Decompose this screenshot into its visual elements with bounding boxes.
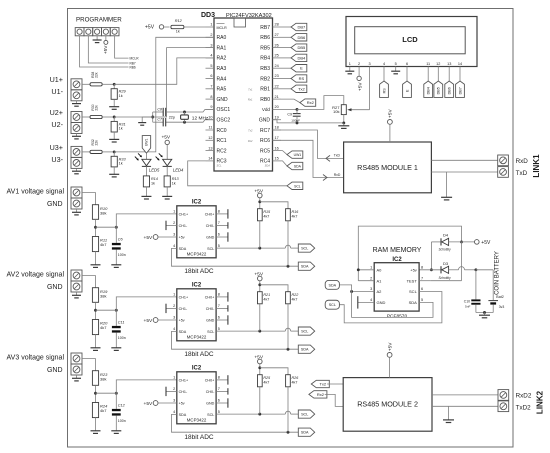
svg-text:10k: 10k — [333, 109, 339, 114]
svg-text:7: 7 — [218, 304, 220, 308]
svg-text:SCL: SCL — [207, 330, 214, 334]
svg-text:4k7: 4k7 — [292, 297, 298, 301]
svg-text:RC5: RC5 — [260, 148, 270, 154]
svg-text:+5v: +5v — [179, 236, 185, 240]
svg-text:5: 5 — [218, 410, 220, 414]
svg-text:DD3: DD3 — [201, 12, 215, 19]
svg-text:RA1: RA1 — [217, 45, 227, 51]
svg-text:6: 6 — [218, 233, 220, 237]
svg-text:13: 13 — [447, 62, 451, 66]
svg-text:16: 16 — [275, 146, 279, 150]
svg-text:Schottky: Schottky — [439, 248, 452, 252]
svg-text:IC2: IC2 — [392, 257, 402, 263]
svg-text:C10: C10 — [464, 299, 470, 303]
svg-text:RB7: RB7 — [130, 61, 136, 65]
svg-text:SCL: SCL — [207, 413, 214, 417]
svg-text:GND: GND — [47, 367, 63, 374]
svg-text:3: 3 — [370, 287, 372, 291]
svg-text:OSC1: OSC1 — [217, 107, 231, 113]
svg-text:Tx1: Tx1 — [248, 87, 253, 91]
svg-text:R12: R12 — [175, 19, 183, 23]
svg-text:LED4: LED4 — [173, 167, 184, 172]
svg-text:17: 17 — [275, 136, 279, 140]
svg-text:LCD: LCD — [402, 35, 418, 44]
svg-text:18bit ADC: 18bit ADC — [184, 351, 214, 358]
svg-text:3: 3 — [210, 43, 212, 47]
svg-text:100n: 100n — [118, 336, 126, 340]
svg-text:2: 2 — [370, 276, 372, 280]
svg-text:RA0: RA0 — [217, 35, 227, 41]
svg-text:COIN BATTERY: COIN BATTERY — [495, 251, 501, 295]
svg-text:+5V: +5V — [144, 401, 153, 407]
svg-text:1: 1 — [173, 210, 175, 214]
svg-text:R21: R21 — [263, 293, 270, 297]
svg-text:3: 3 — [368, 62, 370, 66]
svg-text:22k: 22k — [95, 105, 99, 111]
svg-text:SDA: SDA — [301, 348, 309, 352]
svg-text:SDA: SDA — [179, 247, 187, 251]
svg-text:Rx2: Rx2 — [317, 392, 325, 397]
svg-text:CH1-: CH1- — [179, 224, 188, 228]
svg-text:5: 5 — [395, 62, 397, 66]
svg-text:U1+: U1+ — [50, 75, 63, 84]
svg-text:27: 27 — [275, 33, 279, 37]
svg-text:SCL: SCL — [217, 164, 223, 168]
svg-text:C12: C12 — [118, 404, 126, 408]
svg-text:1: 1 — [173, 376, 175, 380]
svg-text:SCL: SCL — [207, 247, 214, 251]
svg-text:Rx2: Rx2 — [307, 100, 315, 105]
svg-text:Rx1: Rx1 — [248, 98, 253, 102]
svg-text:5: 5 — [218, 244, 220, 248]
svg-text:LINK2: LINK2 — [536, 390, 545, 414]
svg-text:CH0-: CH0- — [206, 307, 215, 311]
svg-text:CH1-: CH1- — [179, 390, 188, 394]
svg-text:AV1 voltage signal: AV1 voltage signal — [7, 189, 65, 196]
svg-text:Bat2: Bat2 — [496, 295, 503, 299]
svg-text:OSC2: OSC2 — [217, 118, 231, 124]
svg-text:GND: GND — [47, 201, 63, 208]
svg-text:DB7: DB7 — [458, 87, 462, 94]
svg-text:26: 26 — [275, 43, 279, 47]
svg-text:DB5: DB5 — [437, 87, 441, 94]
svg-text:RC6: RC6 — [260, 138, 270, 144]
svg-text:SCL: SCL — [329, 303, 336, 307]
svg-text:SDA: SDA — [409, 300, 418, 305]
svg-text:4: 4 — [370, 298, 372, 302]
svg-text:5: 5 — [218, 327, 220, 331]
svg-text:SDA: SDA — [179, 413, 187, 417]
svg-text:+5V: +5V — [481, 240, 491, 246]
svg-text:4: 4 — [173, 244, 175, 248]
svg-text:SDA: SDA — [301, 431, 309, 435]
svg-text:4k7: 4k7 — [263, 214, 269, 218]
svg-text:RS485 MODULE 1: RS485 MODULE 1 — [357, 163, 418, 172]
svg-text:+5V: +5V — [145, 25, 155, 31]
svg-text:R13: R13 — [172, 177, 180, 181]
svg-text:R25: R25 — [263, 376, 271, 380]
svg-text:4k7: 4k7 — [100, 408, 107, 413]
svg-text:C11: C11 — [118, 321, 125, 325]
svg-text:25: 25 — [275, 54, 279, 58]
svg-text:R14: R14 — [151, 177, 158, 181]
svg-text:Tx2: Tx2 — [248, 129, 253, 133]
svg-text:RB7: RB7 — [260, 25, 270, 31]
svg-text:22k: 22k — [95, 140, 99, 146]
svg-text:RA2: RA2 — [217, 56, 227, 62]
svg-text:MCP3422: MCP3422 — [187, 334, 207, 339]
svg-text:GND: GND — [217, 97, 229, 103]
svg-text:MCLR: MCLR — [217, 26, 228, 30]
svg-text:7: 7 — [421, 276, 423, 280]
svg-text:RC0: RC0 — [217, 128, 227, 134]
svg-text:SDA: SDA — [329, 283, 337, 287]
svg-text:GND: GND — [377, 300, 386, 305]
svg-text:SCL: SCL — [301, 330, 308, 334]
svg-text:GND: GND — [206, 236, 215, 240]
svg-text:RB6: RB6 — [260, 35, 270, 41]
svg-text:U3-: U3- — [51, 155, 63, 164]
svg-text:14: 14 — [458, 62, 462, 66]
svg-text:D3: D3 — [443, 261, 449, 266]
svg-text:6: 6 — [218, 316, 220, 320]
svg-text:1: 1 — [173, 293, 175, 297]
svg-text:GND: GND — [206, 402, 215, 406]
svg-text:PCF8570: PCF8570 — [387, 314, 408, 320]
svg-text:4: 4 — [383, 62, 385, 66]
svg-text:AV3 voltage signal: AV3 voltage signal — [7, 355, 65, 362]
svg-text:RB2: RB2 — [260, 76, 270, 82]
svg-text:Schottky: Schottky — [439, 276, 452, 280]
svg-text:GND: GND — [47, 284, 63, 291]
svg-text:2: 2 — [210, 33, 212, 37]
svg-text:PIC24FV32KA302: PIC24FV32KA302 — [226, 13, 272, 19]
svg-text:RxD: RxD — [334, 173, 341, 177]
svg-text:12: 12 — [436, 62, 440, 66]
svg-text:6: 6 — [406, 62, 408, 66]
svg-text:RxD: RxD — [516, 158, 529, 165]
svg-text:TxD: TxD — [334, 154, 341, 158]
svg-text:SDA: SDA — [294, 165, 302, 169]
svg-text:+5V: +5V — [388, 109, 394, 118]
svg-text:A0: A0 — [377, 267, 383, 272]
svg-text:RS485 MODULE 2: RS485 MODULE 2 — [357, 400, 418, 409]
svg-text:UW1: UW1 — [294, 153, 302, 157]
svg-text:U2+: U2+ — [50, 108, 63, 117]
svg-text:Rx2: Rx2 — [248, 139, 253, 143]
svg-text:+5V: +5V — [144, 318, 153, 324]
svg-text:CH0+: CH0+ — [205, 213, 215, 217]
svg-text:1k: 1k — [119, 127, 123, 131]
svg-text:AV2 voltage signal: AV2 voltage signal — [7, 272, 65, 279]
svg-text:LINK1: LINK1 — [532, 154, 541, 178]
svg-text:8: 8 — [421, 266, 423, 270]
svg-text:RB1: RB1 — [260, 87, 270, 93]
svg-text:DB6: DB6 — [448, 87, 452, 94]
svg-text:RB3: RB3 — [260, 66, 270, 72]
svg-text:7: 7 — [218, 221, 220, 225]
svg-text:1: 1 — [370, 266, 372, 270]
svg-text:UW1: UW1 — [145, 139, 149, 147]
svg-text:20: 20 — [275, 105, 279, 109]
svg-text:3: 3 — [173, 316, 175, 320]
svg-text:DB4: DB4 — [298, 55, 307, 60]
svg-text:28: 28 — [275, 23, 279, 27]
svg-text:+5V: +5V — [161, 135, 170, 141]
svg-text:RA5: RA5 — [217, 87, 227, 93]
svg-text:2: 2 — [173, 304, 175, 308]
svg-text:22p: 22p — [169, 115, 175, 119]
svg-text:MCP3422: MCP3422 — [187, 417, 207, 422]
svg-text:1k: 1k — [151, 182, 155, 186]
svg-text:CH1-: CH1- — [179, 307, 188, 311]
svg-text:38k: 38k — [100, 210, 106, 215]
svg-text:LED5: LED5 — [149, 167, 160, 172]
svg-text:1: 1 — [210, 23, 212, 27]
svg-text:CH0-: CH0- — [206, 390, 215, 394]
svg-text:2: 2 — [358, 62, 360, 66]
svg-text:13: 13 — [208, 146, 212, 150]
svg-text:A2: A2 — [377, 289, 383, 294]
svg-text:6: 6 — [210, 74, 212, 78]
svg-text:U2-: U2- — [51, 120, 63, 129]
svg-text:CH0-: CH0- — [206, 224, 215, 228]
svg-text:SDA: SDA — [301, 265, 309, 269]
svg-text:1: 1 — [349, 62, 351, 66]
svg-text:RxD2: RxD2 — [516, 393, 532, 400]
svg-text:TEST: TEST — [407, 278, 418, 283]
svg-text:1k: 1k — [172, 182, 176, 186]
svg-text:RC2: RC2 — [217, 148, 227, 154]
svg-text:RAM MEMORY: RAM MEMORY — [373, 247, 422, 254]
svg-text:C8: C8 — [157, 107, 162, 111]
svg-text:+5v: +5v — [179, 402, 185, 406]
svg-text:U1-: U1- — [51, 87, 63, 96]
svg-text:RS: RS — [382, 88, 386, 94]
svg-text:24: 24 — [275, 64, 279, 68]
svg-text:38k: 38k — [100, 293, 106, 298]
svg-text:DB5: DB5 — [298, 45, 307, 50]
svg-text:4k7: 4k7 — [100, 242, 107, 247]
svg-text:E: E — [300, 66, 303, 71]
svg-text:TxD2: TxD2 — [516, 405, 532, 412]
svg-text:DB7: DB7 — [298, 25, 307, 30]
svg-text:4: 4 — [173, 410, 175, 414]
svg-text:TxD: TxD — [516, 170, 528, 177]
svg-text:3: 3 — [173, 233, 175, 237]
svg-text:18bit ADC: 18bit ADC — [184, 268, 214, 275]
svg-text:4: 4 — [173, 327, 175, 331]
svg-text:2: 2 — [173, 221, 175, 225]
svg-text:GND: GND — [259, 118, 271, 124]
svg-text:1k: 1k — [176, 30, 180, 34]
svg-text:+5V: +5V — [387, 342, 393, 351]
svg-text:CH1+: CH1+ — [179, 379, 189, 383]
svg-text:+5V: +5V — [144, 235, 153, 241]
svg-text:12: 12 — [208, 136, 212, 140]
svg-text:19: 19 — [275, 115, 279, 119]
svg-text:2: 2 — [173, 387, 175, 391]
svg-text:1k: 1k — [119, 162, 123, 166]
svg-text:4: 4 — [210, 54, 212, 58]
svg-text:4k7: 4k7 — [100, 325, 107, 330]
svg-text:7: 7 — [218, 387, 220, 391]
svg-text:SDA: SDA — [265, 164, 271, 168]
svg-text:6: 6 — [421, 287, 423, 291]
svg-text:+5V: +5V — [103, 45, 109, 54]
svg-text:R16: R16 — [292, 210, 300, 214]
svg-text:SCL: SCL — [409, 289, 418, 294]
svg-text:6: 6 — [218, 399, 220, 403]
svg-text:Tx2: Tx2 — [298, 86, 305, 91]
svg-text:4k7: 4k7 — [263, 380, 269, 384]
svg-text:RC1: RC1 — [217, 138, 227, 144]
svg-text:RB5: RB5 — [260, 45, 270, 51]
svg-text:8: 8 — [218, 376, 220, 380]
svg-text:GND: GND — [206, 319, 215, 323]
svg-text:R26: R26 — [292, 376, 300, 380]
svg-text:U3+: U3+ — [50, 143, 63, 152]
svg-text:SCL: SCL — [294, 184, 301, 188]
svg-text:R22: R22 — [292, 293, 299, 297]
svg-text:C9: C9 — [287, 113, 292, 117]
svg-text:100nF: 100nF — [291, 118, 300, 122]
svg-text:D4: D4 — [443, 232, 449, 237]
svg-text:IC2: IC2 — [192, 200, 202, 206]
svg-text:MCLR: MCLR — [130, 56, 140, 60]
svg-text:IC2: IC2 — [192, 366, 202, 372]
svg-text:CH0+: CH0+ — [205, 296, 215, 300]
svg-text:+5v: +5v — [410, 267, 417, 272]
svg-text:12 MHz: 12 MHz — [192, 116, 209, 122]
svg-text:SCL: SCL — [301, 413, 308, 417]
svg-text:IC2: IC2 — [192, 283, 202, 289]
svg-text:1k: 1k — [119, 94, 123, 98]
svg-text:5: 5 — [421, 298, 423, 302]
svg-text:4k7: 4k7 — [263, 297, 269, 301]
svg-text:RS: RS — [299, 76, 305, 81]
svg-text:R15: R15 — [263, 210, 271, 214]
svg-text:A1: A1 — [377, 278, 383, 283]
svg-text:11: 11 — [209, 126, 213, 130]
svg-text:22k: 22k — [95, 72, 99, 78]
svg-text:CH0+: CH0+ — [205, 379, 215, 383]
svg-text:RB6: RB6 — [130, 65, 136, 69]
svg-text:14: 14 — [208, 157, 212, 161]
svg-text:3: 3 — [173, 399, 175, 403]
svg-text:Vdd: Vdd — [262, 107, 271, 112]
svg-text:RC7: RC7 — [260, 128, 270, 134]
svg-text:11: 11 — [426, 62, 430, 66]
svg-text:100n: 100n — [118, 419, 126, 423]
svg-text:4k7: 4k7 — [292, 214, 298, 218]
svg-text:21: 21 — [275, 95, 279, 99]
svg-text:SCL: SCL — [301, 247, 308, 251]
svg-text:Tx2: Tx2 — [319, 382, 326, 387]
svg-text:100n: 100n — [118, 253, 126, 257]
svg-text:DB4: DB4 — [427, 87, 431, 94]
svg-text:CH1+: CH1+ — [179, 213, 189, 217]
svg-text:CH1+: CH1+ — [179, 296, 189, 300]
svg-text:38k: 38k — [100, 376, 106, 381]
svg-text:MCP3422: MCP3422 — [187, 251, 207, 256]
svg-text:8: 8 — [210, 95, 212, 99]
svg-text:18bit ADC: 18bit ADC — [184, 434, 214, 441]
svg-text:PROGRAMMER: PROGRAMMER — [76, 16, 122, 23]
svg-text:+5v: +5v — [179, 319, 185, 323]
svg-text:+5V: +5V — [357, 82, 363, 91]
svg-text:5nF: 5nF — [465, 305, 470, 309]
svg-text:9: 9 — [210, 105, 212, 109]
svg-text:18: 18 — [275, 126, 279, 130]
svg-text:8: 8 — [218, 210, 220, 214]
svg-text:10: 10 — [208, 115, 212, 119]
svg-text:8: 8 — [218, 293, 220, 297]
svg-text:RA4: RA4 — [217, 76, 227, 82]
svg-text:4k7: 4k7 — [292, 380, 298, 384]
svg-text:RA3: RA3 — [217, 66, 227, 72]
svg-text:7: 7 — [210, 85, 212, 89]
svg-text:SDA: SDA — [179, 330, 187, 334]
svg-text:RB4: RB4 — [260, 56, 270, 62]
svg-text:3v3: 3v3 — [499, 305, 505, 309]
svg-text:DB6: DB6 — [298, 35, 307, 40]
svg-text:15: 15 — [275, 157, 279, 161]
svg-text:22: 22 — [275, 85, 279, 89]
svg-text:RB0: RB0 — [260, 97, 270, 103]
svg-text:5: 5 — [210, 64, 212, 68]
svg-text:23: 23 — [275, 74, 279, 78]
